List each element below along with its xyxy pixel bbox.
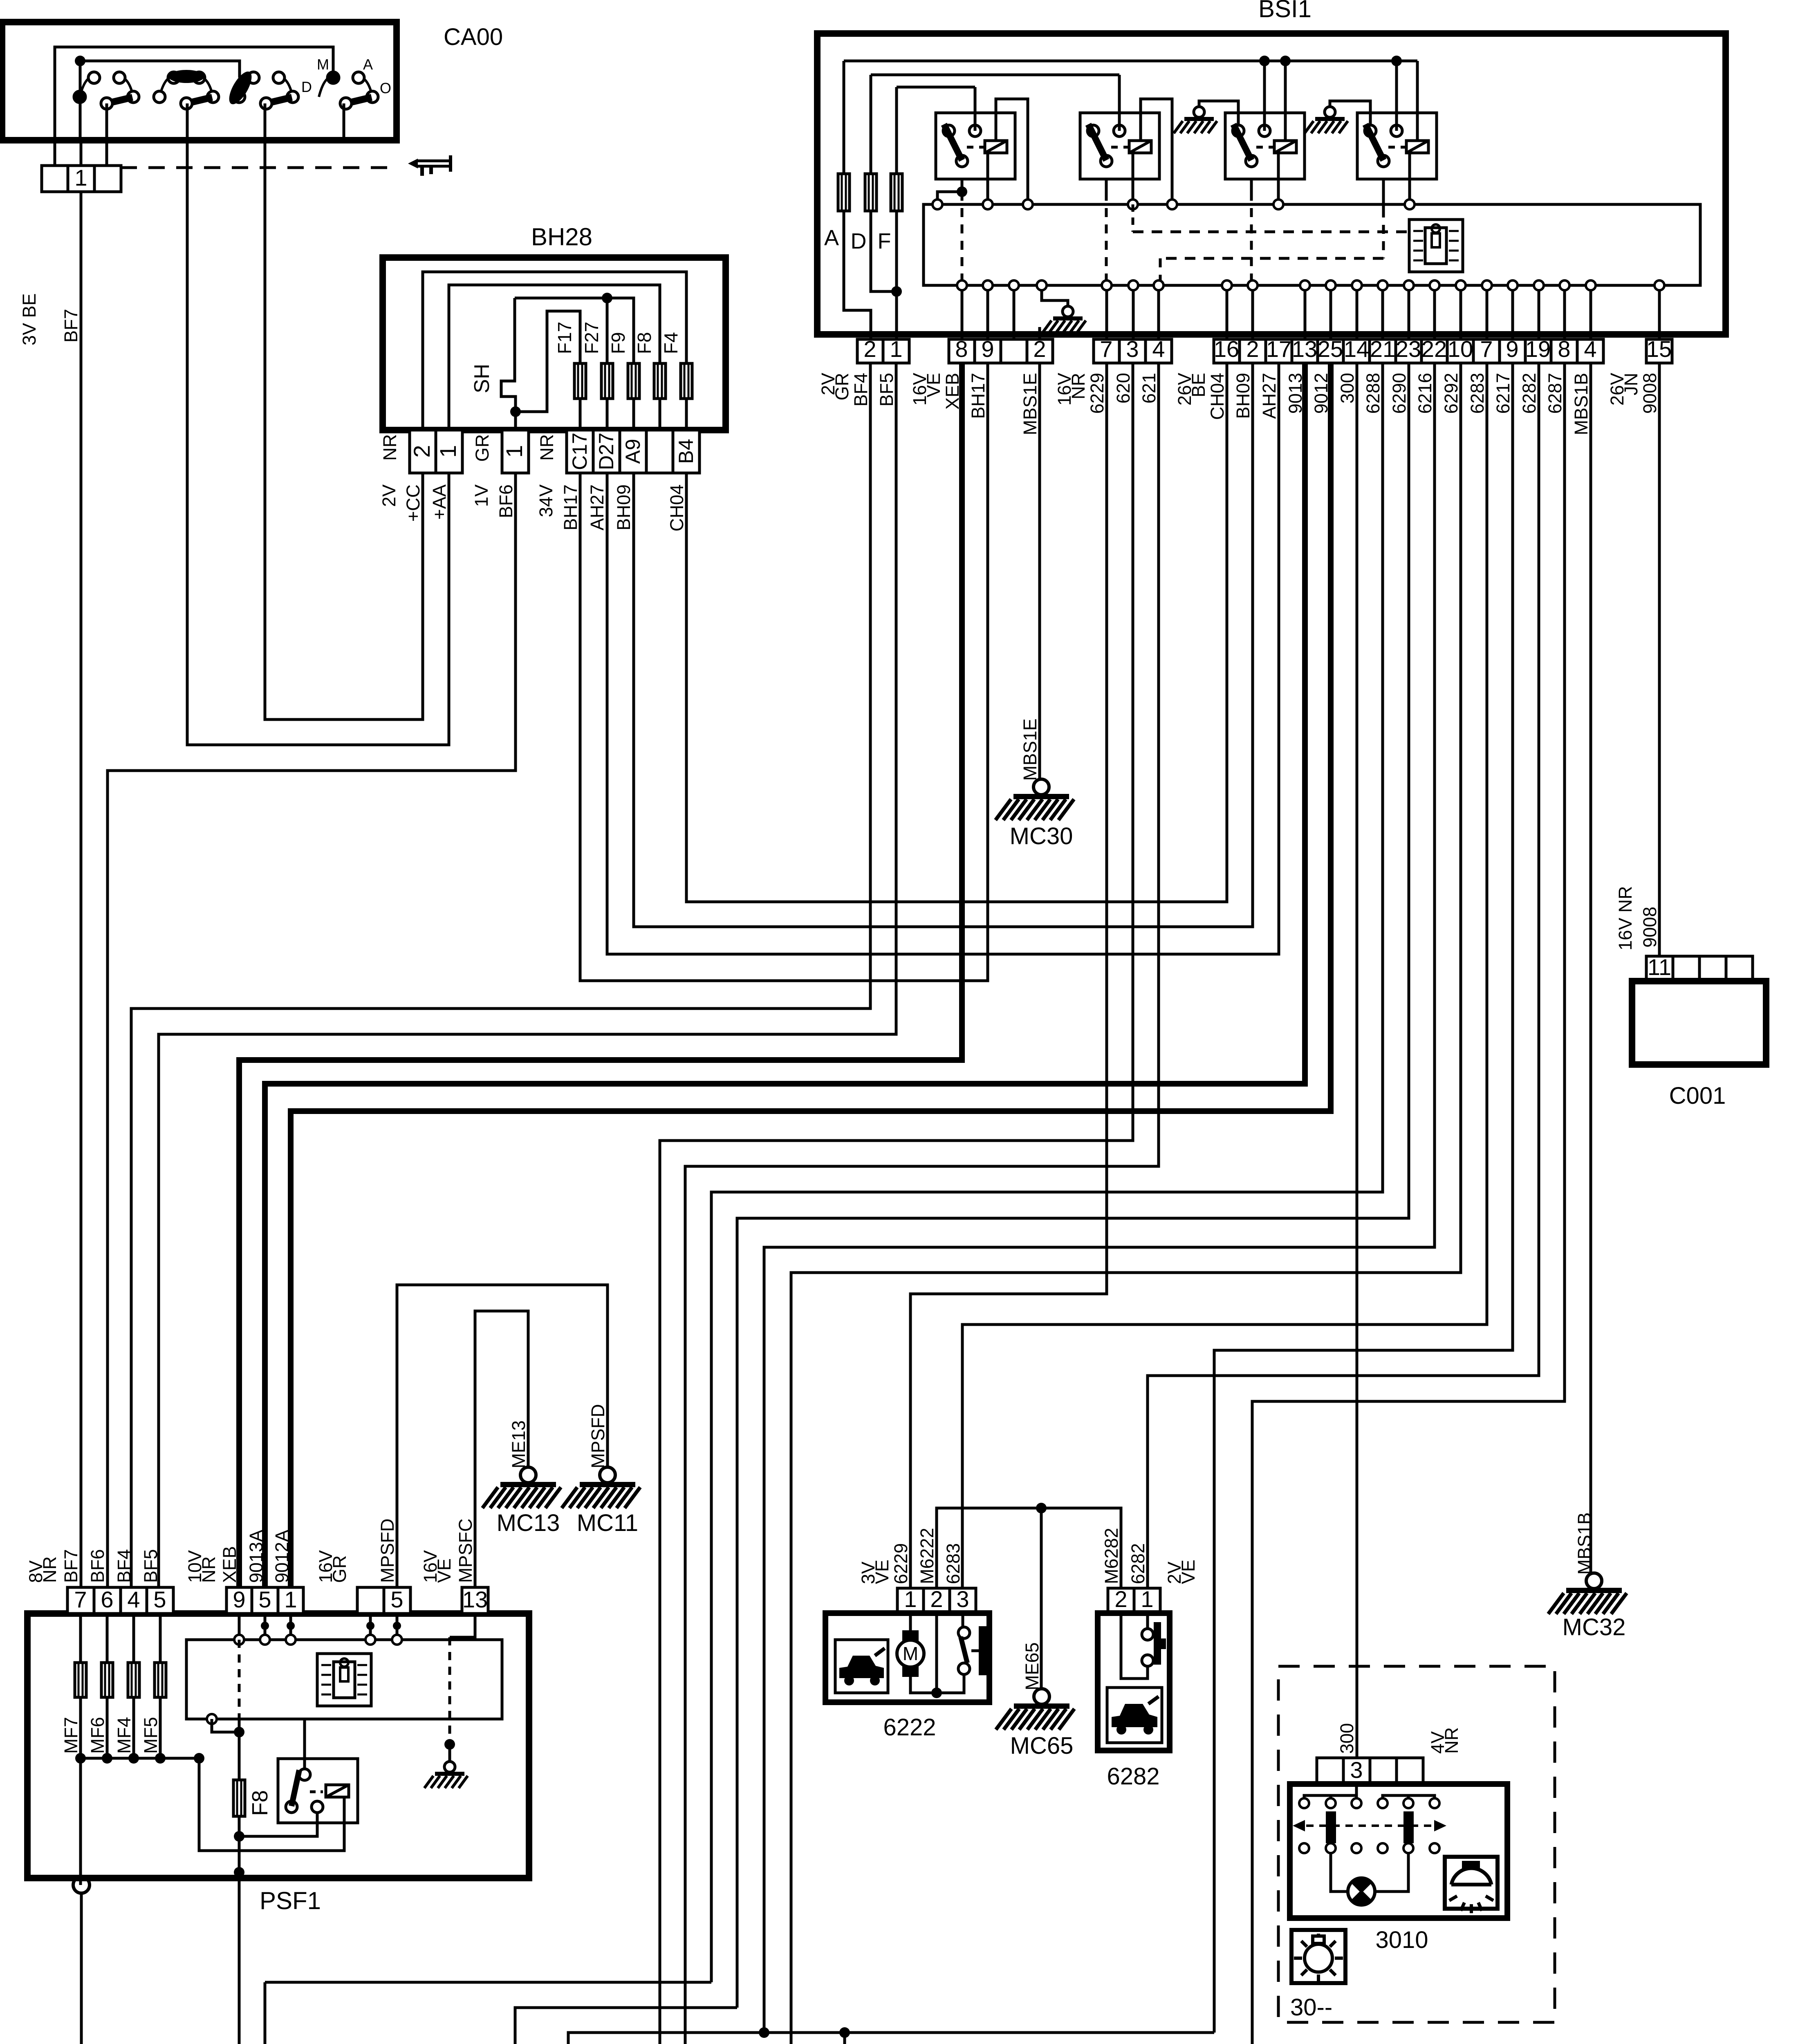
svg-text:1: 1 — [74, 165, 87, 191]
wire BH28 pin1 to fuse F8 — [449, 285, 660, 430]
PSF1 pin group 16V VE — [462, 1587, 488, 1614]
svg-text:30--: 30-- — [1290, 1994, 1332, 2021]
internal ground in BSI1 (MBS1E) — [1042, 285, 1068, 307]
wire CA00 pin to connector — [54, 140, 56, 166]
wire net 6288/6243 horizontal — [265, 1981, 711, 1984]
wire fuse D join — [871, 211, 897, 291]
wire via jog to F8 node — [212, 1719, 239, 1732]
svg-text:BF4: BF4 — [850, 373, 871, 407]
svg-text:JN: JN — [1621, 373, 1641, 395]
dashed link relay2 to flasher — [1132, 204, 1134, 232]
switch inside 6222 — [962, 1613, 964, 1627]
wire pin to fuse MF6 — [106, 1614, 109, 1663]
svg-text:2: 2 — [1246, 336, 1259, 362]
svg-text:6216: 6216 — [1415, 373, 1435, 414]
wire BF7 into connector — [80, 140, 83, 166]
wire SH to fuse F17 — [516, 311, 580, 412]
relay 2 in BSI1 — [1080, 113, 1159, 179]
wire 3010 top link left — [1304, 1795, 1356, 1798]
wire drop 6207 pin 1 — [843, 2033, 846, 2044]
svg-text:A: A — [824, 226, 839, 250]
svg-text:6292: 6292 — [1441, 373, 1462, 414]
fuse F8 in PSF1 — [233, 1780, 245, 1816]
wire BSI1 rail from fuse A — [844, 60, 1417, 63]
svg-text:13: 13 — [1292, 336, 1317, 362]
svg-text:MC32: MC32 — [1563, 1614, 1626, 1641]
wire pin 13 jog — [450, 1614, 475, 1637]
wire XEB pin into inner box — [238, 1614, 241, 1640]
wire 621 BSI1 to junction — [685, 363, 1159, 2044]
BSI1 inner board box — [924, 204, 1700, 285]
svg-text:MF4: MF4 — [114, 1717, 135, 1754]
svg-text:VE: VE — [923, 373, 944, 397]
svg-text:1: 1 — [501, 445, 527, 457]
svg-text:BH28: BH28 — [531, 223, 592, 251]
svg-text:AH27: AH27 — [587, 484, 608, 531]
svg-text:10: 10 — [1448, 336, 1473, 362]
wire XEB dashed in inner box — [238, 1640, 241, 1719]
svg-text:6290: 6290 — [1389, 373, 1410, 414]
svg-text:BF5: BF5 — [140, 1549, 161, 1583]
wire 6288 BSI1 descent — [711, 363, 1383, 1982]
wire SH to fuses F27 F9 — [515, 298, 634, 363]
wire fuse F to pin 1 BF5 — [895, 211, 898, 339]
svg-text:MF5: MF5 — [140, 1717, 161, 1754]
svg-text:34V: 34V — [536, 484, 556, 517]
relay 4 in BSI1 — [1357, 113, 1437, 179]
dashed option box — [1278, 1666, 1555, 2022]
bonnet switch unit 6222 — [897, 1588, 976, 1613]
wire relay top to inner box — [303, 1719, 306, 1769]
wire relay2 blade to pin 7 — [1105, 179, 1108, 192]
svg-text:1: 1 — [890, 336, 902, 362]
svg-text:BE: BE — [1188, 373, 1209, 397]
wire relay4 coil-bottom — [1408, 153, 1411, 204]
svg-text:VE: VE — [872, 1560, 892, 1584]
wire MBS1B to ground MC32 — [1590, 363, 1592, 1573]
bulb icon box bottom left — [1291, 1930, 1345, 1983]
relay in PSF1 — [278, 1759, 358, 1823]
wire pin13 dashed — [448, 1637, 451, 1744]
ground MC11 — [562, 1467, 640, 1508]
wire 6287 BSI1 to 6217 pin 1 — [1252, 363, 1565, 2044]
svg-text:F8: F8 — [634, 332, 655, 354]
junction SH — [510, 406, 521, 417]
wire F27 to pin — [606, 399, 609, 430]
wire F9 to pin — [632, 399, 635, 430]
wire A rail to relay4 coil — [1416, 61, 1419, 141]
ignition switch CA00 box — [2, 22, 397, 140]
svg-text:NR: NR — [1068, 373, 1089, 399]
svg-text:1: 1 — [284, 1587, 297, 1612]
wire fuse A to pin 2 BF4 — [844, 211, 871, 339]
PSF1 pin group 16V GR — [357, 1587, 410, 1614]
svg-text:SH: SH — [470, 364, 494, 393]
motor inside 6222 — [909, 1613, 912, 1630]
svg-text:A9: A9 — [621, 439, 644, 464]
junction ME65 — [1036, 1503, 1047, 1513]
svg-text:1: 1 — [435, 445, 461, 457]
svg-text:MC30: MC30 — [1010, 823, 1073, 849]
BSI1 pin group 2V GR — [857, 339, 909, 363]
wire CH04 BSI1 to BH28 B4 — [686, 363, 1227, 902]
svg-text:NR: NR — [379, 434, 400, 461]
svg-text:9008: 9008 — [1639, 907, 1660, 948]
svg-text:D: D — [301, 78, 312, 95]
svg-text:BH09: BH09 — [613, 484, 634, 531]
fuse F8 in BH28 — [654, 363, 666, 399]
svg-text:7: 7 — [74, 1587, 87, 1612]
svg-text:CH04: CH04 — [1207, 373, 1228, 420]
svg-text:MPSFD: MPSFD — [377, 1519, 398, 1583]
wire to fuse F8 — [238, 1719, 241, 1780]
wire F8 to pin — [659, 399, 661, 430]
svg-text:NR: NR — [198, 1556, 219, 1583]
wire BH17 BSI1 pin9 to BH28 C17 — [580, 363, 988, 981]
wire 6282 internal — [1121, 1613, 1148, 1679]
svg-text:F27: F27 — [581, 322, 602, 354]
svg-text:CH04: CH04 — [666, 484, 687, 531]
svg-text:BF7: BF7 — [61, 309, 81, 343]
BH28 pin group 2V NR — [410, 430, 462, 473]
ground MC32 — [1548, 1573, 1627, 1614]
svg-text:B4: B4 — [675, 439, 697, 464]
svg-text:300: 300 — [1337, 373, 1358, 403]
wire CA00 internal branch — [80, 61, 240, 78]
junction MF5 on bus — [155, 1753, 166, 1764]
interior light switch 3010 — [1317, 1758, 1423, 1784]
wire relay contact to F8 node — [239, 1813, 317, 1836]
svg-text:2: 2 — [409, 445, 435, 457]
ground symbol left of relay4 in BSI1 — [1330, 101, 1370, 126]
wire CA00 filled contact to bottom — [79, 102, 82, 140]
PSF1 pin group 10V NR — [226, 1587, 303, 1614]
svg-text:3010: 3010 — [1375, 1927, 1428, 1953]
car icon inside 6222 — [835, 1640, 888, 1693]
key symbol CA00 — [408, 155, 452, 176]
junction CA00 — [75, 56, 85, 66]
wire CA00 internal top bus — [55, 47, 333, 140]
wire BH28 pin1(BF6) riser — [514, 412, 517, 430]
svg-text:F9: F9 — [608, 332, 629, 354]
selector bar right 3010 — [1403, 1811, 1414, 1843]
svg-text:BH17: BH17 — [560, 484, 581, 531]
fuse F27 in BH28 — [601, 363, 613, 399]
svg-text:+CC: +CC — [403, 484, 424, 522]
svg-text:MBS1E: MBS1E — [1020, 718, 1040, 781]
svg-text:MC13: MC13 — [497, 1510, 560, 1536]
rotary switch 3 CA00 — [239, 76, 293, 97]
wire 6282 BSI1 to 6282 pin 1 — [1148, 363, 1539, 1588]
junction MF6 on bus — [102, 1753, 112, 1764]
wire CA00 stub sw2 — [186, 103, 189, 140]
wire BF4 BSI1 to PSF1 pin 4 — [131, 363, 870, 1587]
wire 3010 pin3 internal — [1355, 1784, 1358, 1798]
svg-text:F17: F17 — [554, 322, 575, 354]
svg-text:MPSFD: MPSFD — [587, 1404, 608, 1469]
svg-text:BF5: BF5 — [876, 373, 897, 407]
via on inner box bottom — [207, 1714, 217, 1724]
BSI1 pin group 16V NR — [1094, 339, 1172, 363]
wire PSF1 bus to output circle — [79, 1758, 82, 1885]
wire riser 6212 pin 1 — [264, 1982, 267, 2044]
rotary switch 2 CA00 — [159, 76, 213, 97]
wire 9012/9012A thick to PSF1 pin 1 — [291, 363, 1331, 1587]
svg-text:GR: GR — [329, 1555, 350, 1583]
svg-text:GR: GR — [472, 434, 493, 462]
wire 6222 pin2 internal — [935, 1613, 938, 1693]
svg-text:16: 16 — [1214, 336, 1239, 362]
wire D rail to relay2 — [1118, 75, 1121, 131]
svg-text:13: 13 — [462, 1587, 488, 1612]
svg-text:6229: 6229 — [890, 1543, 911, 1584]
svg-text:NR: NR — [39, 1556, 60, 1583]
svg-text:6217: 6217 — [1493, 373, 1513, 414]
fuse box BH28 — [383, 258, 726, 430]
wire F8 bottom — [238, 1816, 241, 1872]
svg-text:1: 1 — [904, 1586, 917, 1612]
wire 6290 BSI1 descent — [737, 363, 1409, 2008]
svg-text:MF7: MF7 — [61, 1717, 81, 1754]
svg-text:19: 19 — [1525, 336, 1551, 362]
svg-text:15: 15 — [1646, 336, 1672, 362]
component inside PSF1 — [317, 1654, 371, 1706]
svg-text:M: M — [903, 1643, 918, 1664]
connector circle PSF1 bottom — [73, 1877, 90, 1893]
wire net 6216A horizontal — [568, 2033, 1214, 2044]
wire net 6290/629A to 6202 pin 4 — [515, 2008, 737, 2044]
wire +CC loop CA00 to BH28 — [265, 140, 423, 719]
svg-text:6283: 6283 — [1467, 373, 1488, 414]
junction MF7 on bus — [75, 1753, 86, 1764]
svg-text:BF6: BF6 — [495, 484, 516, 518]
BSI1 pin group 26V JN — [1646, 339, 1672, 363]
svg-text:6: 6 — [101, 1587, 113, 1612]
svg-text:ME65: ME65 — [1022, 1642, 1042, 1690]
svg-text:M: M — [317, 56, 329, 73]
wire 6283 BSI1 to 6222 pin 3 — [962, 363, 1487, 1588]
svg-text:6229: 6229 — [1087, 373, 1107, 414]
svg-text:BF6: BF6 — [87, 1549, 108, 1583]
svg-text:2V: 2V — [379, 484, 399, 507]
svg-text:MC11: MC11 — [577, 1510, 638, 1536]
boot switch unit 6282 — [1108, 1588, 1160, 1613]
svg-text:BH17: BH17 — [968, 373, 989, 419]
svg-text:1V: 1V — [471, 484, 492, 507]
wire CA00 internal BF7 riser — [79, 61, 82, 90]
svg-text:9008: 9008 — [1639, 373, 1660, 414]
svg-text:6222: 6222 — [883, 1714, 936, 1741]
junction pin13 ground — [444, 1739, 455, 1750]
connector 3V BE under CA00 — [42, 166, 121, 192]
svg-text:6282: 6282 — [1128, 1543, 1148, 1584]
svg-text:6283: 6283 — [943, 1543, 964, 1584]
wire MPSFD pin into inner box — [369, 1614, 372, 1640]
wire 6222 internal bottom — [910, 1674, 964, 1693]
ground MC13 — [482, 1467, 561, 1508]
BH28 pin group 34V NR — [567, 430, 699, 473]
flasher component inside BSI1 — [1409, 220, 1463, 272]
wire MPSFD pin into inner box — [396, 1614, 399, 1640]
wire 3010 top link right — [1383, 1795, 1435, 1798]
svg-text:2: 2 — [1114, 1586, 1127, 1612]
wire CA00 stub sw4 — [343, 103, 345, 140]
svg-text:8: 8 — [955, 336, 968, 362]
svg-text:17: 17 — [1266, 336, 1291, 362]
svg-text:BF4: BF4 — [114, 1549, 135, 1583]
wire BF7 vertical to PSF1 pin 7 — [80, 192, 83, 1587]
svg-text:300: 300 — [1336, 1723, 1357, 1754]
ground MC30 — [995, 779, 1074, 820]
body control unit BSI1 box — [817, 34, 1726, 334]
wire PSF1 to battery BB00 — [80, 1893, 83, 2044]
svg-text:VE: VE — [1178, 1560, 1199, 1584]
svg-text:6288: 6288 — [1363, 373, 1383, 414]
svg-text:8: 8 — [1558, 336, 1570, 362]
wire A rail to relay4 contact — [1395, 61, 1398, 131]
PSF1 pin group 8V NR — [67, 1587, 173, 1614]
rotary switch 1 CA00 — [80, 76, 133, 97]
svg-text:GR: GR — [832, 373, 852, 401]
svg-text:6282: 6282 — [1519, 373, 1540, 414]
svg-text:7: 7 — [1480, 336, 1493, 362]
svg-text:MBS1B: MBS1B — [1571, 373, 1592, 435]
svg-text:F8: F8 — [248, 1790, 272, 1816]
wire net M6222/M6282 — [937, 1508, 1121, 1588]
wire relay1 coil-top loop — [996, 99, 1028, 204]
wire 9013/9013A thick to PSF1 pin 5 — [265, 363, 1305, 1587]
svg-text:9: 9 — [1506, 336, 1518, 362]
svg-text:3: 3 — [1350, 1757, 1363, 1783]
wire relay2 coil-bottom — [1132, 153, 1134, 204]
wire XEB thick BSI1 pin8 to PSF1 pin 9 — [239, 363, 962, 1587]
svg-text:BSI1: BSI1 — [1258, 0, 1312, 22]
svg-text:9012A: 9012A — [271, 1530, 292, 1583]
svg-text:MC65: MC65 — [1010, 1732, 1074, 1759]
junction fuse D/F — [891, 286, 902, 297]
wire relay3 blade to pin 2 BH09 — [1250, 179, 1253, 192]
svg-text:PSF1: PSF1 — [260, 1887, 321, 1914]
wire 300 BSI1 to 3010 pin 3 — [1356, 363, 1359, 1758]
wire BH28 pin2 to fuse F4 — [423, 272, 686, 430]
svg-text:A: A — [363, 56, 373, 73]
junction F27 feed — [602, 293, 612, 303]
wire relay1 blade to pin 8 XEB — [961, 179, 964, 192]
svg-text:3V BE: 3V BE — [19, 293, 40, 345]
PSF1 inner board box — [186, 1640, 502, 1719]
wire to fuse F27 — [606, 298, 609, 363]
wire relay3 coil-bottom — [1277, 153, 1280, 204]
wire +AA loop CA00 to BH28 — [187, 140, 449, 745]
junction at PSF1 bottom — [234, 1867, 244, 1878]
wire CA00 stub pivot sw1 — [105, 103, 108, 140]
wire BH09 BSI1 to BH28 A9 — [634, 363, 1253, 927]
svg-text:MPSFC: MPSFC — [455, 1519, 476, 1583]
fuse D in BSI1 — [870, 75, 872, 174]
svg-text:VE: VE — [434, 1558, 455, 1583]
svg-text:21: 21 — [1370, 336, 1395, 362]
wire PSF1 bus to relay coil — [199, 1758, 344, 1851]
wire relay2 coil-top loop — [1141, 99, 1172, 204]
svg-text:4: 4 — [1152, 336, 1165, 362]
fuse F9 in BH28 — [628, 363, 639, 399]
svg-text:621: 621 — [1139, 373, 1159, 403]
BH28 pin group 1V GR — [502, 430, 529, 473]
dashed arrow 3010 — [1306, 1824, 1433, 1827]
svg-text:9: 9 — [981, 336, 994, 362]
wire pin into PSF1 inner box — [264, 1614, 267, 1640]
junction 6216 on 6216A — [759, 2027, 769, 2038]
svg-text:ME13: ME13 — [508, 1420, 529, 1468]
wire 620 BSI1 to junction — [660, 363, 1133, 2044]
svg-text:23: 23 — [1396, 336, 1421, 362]
svg-text:BF7: BF7 — [61, 1549, 81, 1583]
svg-text:6287: 6287 — [1545, 373, 1565, 414]
svg-text:4: 4 — [127, 1587, 140, 1612]
shunt SH in BH28 — [501, 298, 516, 412]
wire MPSFD PSF1 to MC11 — [397, 1285, 608, 1587]
svg-text:5: 5 — [390, 1587, 403, 1612]
svg-text:620: 620 — [1113, 373, 1134, 403]
svg-text:AH27: AH27 — [1259, 373, 1280, 419]
svg-text:MF6: MF6 — [87, 1717, 108, 1754]
svg-text:O: O — [380, 80, 391, 96]
fuse F in BSI1 — [895, 87, 898, 174]
wire BSI1 rail from fuse D — [871, 74, 1119, 76]
wire A rail to relay3 coil — [1284, 61, 1287, 141]
svg-text:9: 9 — [233, 1587, 245, 1612]
selector bar left 3010 — [1326, 1811, 1336, 1843]
junction MF4 on bus — [128, 1753, 139, 1764]
svg-text:NR: NR — [536, 434, 557, 461]
contacts 3010 — [1299, 1798, 1439, 1853]
svg-text:4: 4 — [1584, 336, 1596, 362]
C001 pin row — [1646, 956, 1753, 981]
relay 1 in BSI1 — [936, 113, 1015, 179]
lamp in 3010 — [1331, 1853, 1348, 1892]
svg-text:D27: D27 — [595, 433, 618, 470]
wire relay1 coil-bottom — [986, 153, 989, 204]
wire BF6 from BH28 to PSF1 pin 6 — [108, 473, 516, 1587]
svg-text:F: F — [878, 229, 891, 253]
wire MPSFC/ME13 PSF1 to MC13 — [475, 1311, 528, 1587]
svg-text:11: 11 — [1648, 954, 1671, 980]
ceiling light icon box in 3010 — [1445, 1857, 1498, 1909]
wire pin to fuse MF5 — [159, 1614, 162, 1663]
switch inside 6282 — [1146, 1613, 1149, 1629]
wire A rail to relay3 contact — [1263, 61, 1266, 131]
wire F17 to pin — [579, 399, 582, 430]
svg-text:C17: C17 — [568, 433, 591, 470]
svg-text:3: 3 — [1126, 336, 1139, 362]
car icon inside 6282 — [1107, 1688, 1162, 1743]
svg-text:14: 14 — [1344, 336, 1369, 362]
fuse A in BSI1 — [843, 61, 845, 174]
wire relay4 blade dashed link — [1382, 179, 1385, 208]
svg-text:5: 5 — [258, 1587, 271, 1612]
rotary switch 4 CA00 — [319, 76, 372, 97]
svg-text:F4: F4 — [660, 332, 682, 354]
svg-text:7: 7 — [1100, 336, 1112, 362]
svg-text:NR: NR — [1441, 1727, 1462, 1754]
svg-text:C001: C001 — [1669, 1083, 1726, 1109]
wire ME65 to ground MC65 — [1040, 1508, 1043, 1689]
mechanical link dashes CA00 — [121, 166, 397, 169]
junction F8/relay — [234, 1831, 244, 1842]
svg-text:XEB: XEB — [219, 1546, 240, 1583]
wire F rail to relay1 — [974, 87, 977, 131]
BSI1 pin group 16V VE — [949, 339, 1053, 363]
